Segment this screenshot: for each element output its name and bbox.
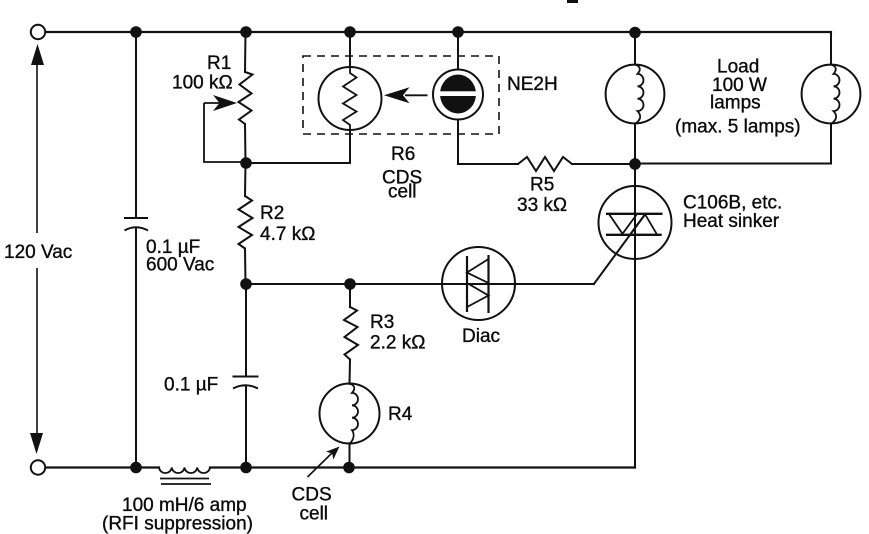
- wire capacitor C1 column upper: [135, 32, 137, 218]
- wire lamp1 top lead: [634, 32, 636, 65]
- wire R2 top lead: [244, 163, 247, 196]
- capacitor C2 0.1uF: [233, 377, 259, 389]
- lamp L2: [802, 65, 861, 124]
- resistor R2: [239, 196, 253, 249]
- diac D1: [442, 247, 515, 320]
- svg-text:lamps: lamps: [710, 93, 761, 114]
- svg-text:Diac: Diac: [462, 326, 500, 347]
- svg-text:R3: R3: [370, 312, 394, 333]
- wire triac main vertical: [634, 124, 636, 468]
- svg-text:(RFI suppression): (RFI suppression): [102, 514, 253, 534]
- wire top rail: [45, 31, 831, 33]
- wire NE2H top lead: [457, 32, 459, 70]
- svg-text:33 kΩ: 33 kΩ: [517, 195, 567, 216]
- resistor R3: [344, 307, 358, 360]
- svg-text:0.1 µF: 0.1 µF: [164, 375, 218, 396]
- wire gate row from R2 junction through diac: [246, 283, 594, 285]
- svg-text:100 kΩ: 100 kΩ: [172, 73, 233, 94]
- svg-text:R2: R2: [260, 203, 284, 224]
- wire bottom rail right of inductor: [210, 466, 635, 468]
- wire capacitor C1 column lower: [135, 228, 137, 468]
- svg-text:Heat sinker: Heat sinker: [683, 211, 780, 232]
- svg-text:R4: R4: [388, 404, 413, 425]
- neon lamp NE2H: [433, 70, 483, 120]
- wire R1 bottom lead: [244, 124, 247, 163]
- wire R6 top lead: [349, 32, 351, 67]
- svg-text:R6: R6: [391, 144, 415, 165]
- arrow NE2H to R6: [384, 87, 428, 103]
- wire R5 right to triac junction: [572, 163, 635, 165]
- wire R1 top lead: [244, 32, 247, 72]
- junction dots top rail: [130, 26, 641, 38]
- wire lamp row bottom: [635, 163, 831, 165]
- svg-text:600 Vac: 600 Vac: [146, 255, 214, 276]
- junction dots bottom rail: [130, 462, 355, 474]
- triac Q1: [599, 186, 672, 259]
- wire R4 bottom lead: [349, 443, 351, 467]
- 120 Vac dimension arrow: [30, 44, 44, 454]
- photocell R4: [320, 384, 380, 444]
- wire C2 column lower: [245, 386, 247, 468]
- terminal bottom-left: [31, 460, 45, 474]
- resistor R1: [239, 72, 253, 124]
- svg-text:R5: R5: [530, 175, 554, 196]
- wire C2 column upper: [245, 284, 247, 377]
- resistor R5: [518, 157, 572, 171]
- svg-text:CDS: CDS: [292, 485, 332, 506]
- arrow to CDS cell R4: [308, 443, 344, 477]
- capacitor C1 0.1uF 600Vac: [124, 218, 148, 231]
- wire NE2H bottom lead to R5: [458, 120, 518, 165]
- wire bottom rail left of inductor: [45, 466, 159, 468]
- wire right edge down to lamp2: [830, 32, 832, 65]
- photocell R6: [319, 67, 382, 130]
- wire R6 bottom row: [246, 130, 350, 163]
- lamp L1: [606, 65, 665, 124]
- svg-text:2.2 kΩ: 2.2 kΩ: [370, 333, 425, 354]
- stray mark top edge: [567, 0, 578, 3]
- svg-text:cell: cell: [300, 504, 329, 525]
- terminal top-left: [31, 25, 45, 39]
- wire R2 bottom lead: [244, 249, 247, 285]
- wire diac to triac gate diagonal: [594, 215, 645, 284]
- junction dot triac anode node: [629, 158, 641, 170]
- wire R3 top lead: [349, 284, 351, 307]
- potentiometer wiper R1: [204, 95, 246, 162]
- svg-text:NE2H: NE2H: [507, 74, 558, 95]
- svg-text:R1: R1: [207, 53, 231, 74]
- svg-text:4.7 kΩ: 4.7 kΩ: [260, 224, 315, 245]
- svg-text:cell: cell: [388, 182, 417, 203]
- junction dot R1 wiper node: [240, 157, 252, 169]
- svg-text:120 Vac: 120 Vac: [4, 242, 72, 263]
- wire lamp2 bottom lead: [830, 124, 832, 164]
- junction dots gate row: [240, 278, 356, 290]
- dashed enclosure box: [303, 56, 499, 134]
- inductor L3 RFI coil: [159, 468, 211, 485]
- wire R3 bottom lead to R4: [349, 360, 352, 384]
- svg-text:(max. 5 lamps): (max. 5 lamps): [675, 117, 801, 138]
